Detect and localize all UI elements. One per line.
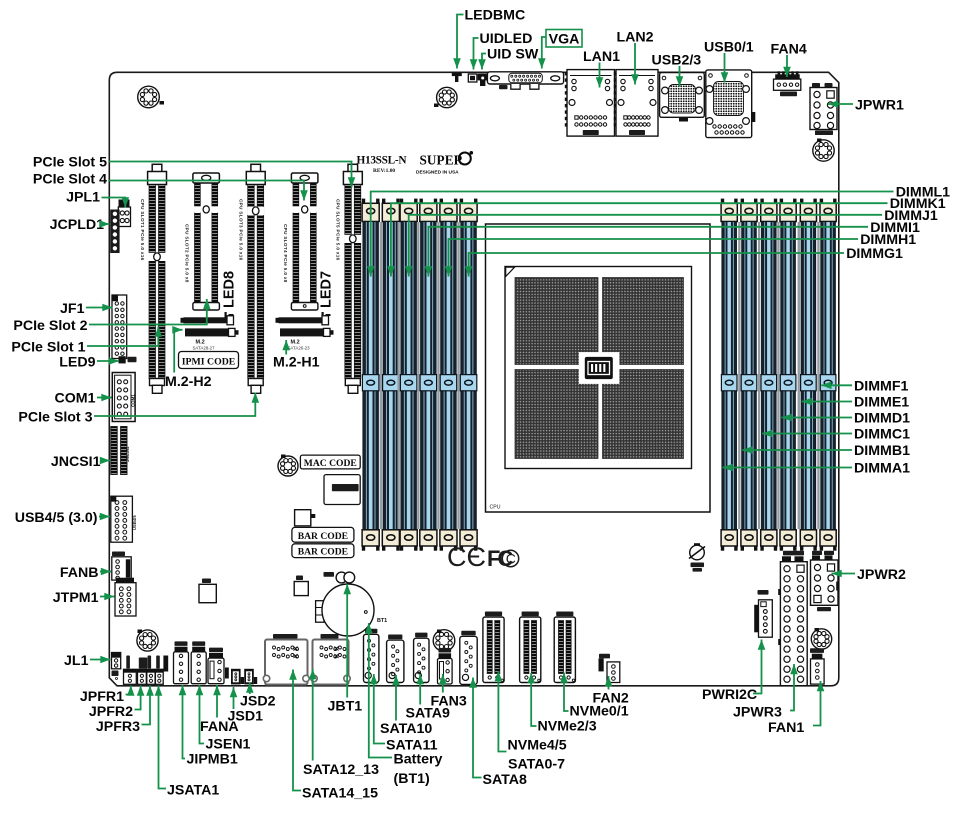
svg-text:M.2-H2: M.2-H2 bbox=[165, 374, 212, 390]
JL1 header bbox=[112, 653, 121, 680]
svg-text:SATA26-23: SATA26-23 bbox=[288, 346, 311, 351]
svg-text:UIDLED: UIDLED bbox=[480, 31, 533, 47]
svg-text:PCIe Slot 4: PCIe Slot 4 bbox=[33, 172, 107, 188]
LAN2 RJ45 jack bbox=[614, 70, 658, 137]
SATA11 connector bbox=[364, 629, 379, 683]
leader DIMMB1 bbox=[742, 446, 852, 454]
gap stripe bbox=[817, 222, 819, 529]
svg-text:Є: Є bbox=[467, 542, 486, 572]
JPL1 header bbox=[118, 200, 130, 227]
JNCSI1 header bbox=[111, 427, 130, 475]
FAN4 header bbox=[774, 71, 801, 96]
NVMe2/3 slimline connector bbox=[520, 612, 541, 683]
svg-text:JPWR3: JPWR3 bbox=[733, 705, 782, 721]
leader DIMMA1 bbox=[722, 464, 852, 472]
leader UID SW bbox=[478, 54, 486, 70]
leader USB2/3 bbox=[676, 66, 684, 87]
FAN3 header bbox=[438, 648, 453, 684]
svg-text:JPFR2: JPFR2 bbox=[89, 704, 133, 720]
PCIe slot CPU SLOT5 (x16) bbox=[336, 164, 363, 393]
svg-text:PWRI2C: PWRI2C bbox=[702, 687, 757, 703]
pad square near battery bbox=[294, 576, 308, 596]
svg-text:JSD2: JSD2 bbox=[240, 694, 276, 710]
JCPLD1 header bbox=[110, 210, 119, 254]
svg-text:COM1: COM1 bbox=[55, 391, 96, 407]
JPWR1 connector bbox=[810, 83, 837, 135]
leader DIMMD1 bbox=[781, 414, 852, 422]
svg-text:DIMMA1: DIMMA1 bbox=[854, 461, 910, 477]
leader PCIe Slot 3 bbox=[94, 393, 259, 417]
PCIe slot CPU SLOT2 (x8) bbox=[185, 173, 220, 310]
PCIe slot CPU SLOT1 (x16) bbox=[140, 164, 167, 393]
CE FC marks bbox=[447, 542, 519, 572]
svg-text:PCIe Slot 3: PCIe Slot 3 bbox=[18, 410, 92, 426]
FANA header bbox=[208, 648, 224, 684]
svg-text:USB4/5: USB4/5 bbox=[132, 515, 137, 530]
CPU socket outer box bbox=[486, 224, 711, 512]
leader JPWR2 bbox=[832, 570, 856, 578]
leader DIMME1 bbox=[802, 398, 852, 406]
svg-text:JF1: JF1 bbox=[60, 301, 85, 317]
svg-text:JNCSI1: JNCSI1 bbox=[51, 454, 101, 470]
svg-text:JIPMB1: JIPMB1 bbox=[187, 752, 238, 768]
svg-text:CPU SLOT2 PCIe 5.0 x8: CPU SLOT2 PCIe 5.0 x8 bbox=[185, 224, 190, 283]
NVMe4/5 slimline connector bbox=[483, 612, 504, 683]
svg-text:CPU SLOT5 PCIe 5.0 x16: CPU SLOT5 PCIe 5.0 x16 bbox=[336, 199, 341, 261]
JSD1 connector bbox=[231, 669, 244, 685]
JBT1 clear-CMOS pads bbox=[324, 572, 355, 583]
leader JBT1 bbox=[343, 584, 351, 698]
leader JSATA1 bbox=[155, 686, 166, 789]
svg-text:JL1: JL1 bbox=[64, 653, 89, 669]
leader SATA12_13 bbox=[309, 669, 317, 761]
DIMM slot DIMMC1 bbox=[760, 199, 777, 551]
leader LEDBMC bbox=[453, 15, 463, 69]
leader JCPLD1 bbox=[99, 220, 109, 228]
leader JIPMB1 bbox=[179, 685, 187, 759]
PCIe slot CPU SLOT4 (x8) bbox=[283, 173, 318, 310]
DIMM slot DIMMH1 bbox=[440, 199, 458, 551]
leader DIMMF1 bbox=[821, 382, 852, 390]
svg-text:SATA28-27: SATA28-27 bbox=[193, 346, 216, 351]
svg-text:JPWR1: JPWR1 bbox=[855, 98, 904, 114]
leader PCIe Slot 2 bbox=[89, 299, 211, 325]
leader JSD2 bbox=[246, 683, 254, 695]
svg-text:DIMMD1: DIMMD1 bbox=[854, 411, 910, 427]
leader JNCSI1 bbox=[100, 457, 110, 465]
leader PCIe Slot 4 bbox=[109, 181, 308, 201]
leader PCIe Slot 1 bbox=[87, 327, 162, 347]
leader DIMMK1 bbox=[387, 203, 887, 276]
svg-text:NVMe4/5: NVMe4/5 bbox=[508, 738, 567, 754]
SATA8 connector bbox=[460, 631, 477, 685]
leader JPL1 bbox=[102, 197, 130, 207]
leader FANB bbox=[100, 568, 111, 576]
leader SATA10 bbox=[392, 675, 400, 721]
leader UIDLED bbox=[470, 38, 479, 70]
CPU socket pin quadrant bottom-left bbox=[515, 370, 598, 459]
svg-text:JSEN1: JSEN1 bbox=[206, 737, 251, 753]
JPWR3 24-pin ATX connector bbox=[778, 551, 807, 686]
MHB pad square bbox=[199, 579, 216, 603]
mounting hole bottom-middle bbox=[433, 630, 455, 652]
DIMM slot DIMMG1 bbox=[460, 199, 478, 551]
svg-text:JBT1: JBT1 bbox=[328, 699, 363, 715]
gap stripe bbox=[798, 222, 800, 529]
svg-text:USB2/3: USB2/3 bbox=[652, 53, 702, 69]
leader SATA11 bbox=[370, 674, 385, 744]
gap stripe bbox=[417, 222, 419, 529]
svg-text:FAN4: FAN4 bbox=[771, 42, 807, 58]
VGA boxed label bbox=[546, 30, 582, 48]
leader FANA bbox=[213, 685, 221, 718]
svg-text:COM1: COM1 bbox=[130, 394, 135, 407]
svg-text:JNCSI1: JNCSI1 bbox=[125, 446, 130, 462]
svg-text:NVMe2/3: NVMe2/3 bbox=[538, 719, 597, 735]
leader SATA8 bbox=[469, 678, 481, 778]
mounting hole top-left bbox=[138, 86, 164, 108]
svg-text:C: C bbox=[447, 542, 467, 572]
leader JSEN1 bbox=[196, 685, 204, 744]
svg-text:SATA10: SATA10 bbox=[380, 721, 432, 737]
JPFR headers group bbox=[124, 656, 169, 685]
H13SSL-N title bbox=[357, 155, 408, 175]
svg-text:DIMMC1: DIMMC1 bbox=[854, 427, 910, 443]
svg-text:LED7: LED7 bbox=[319, 271, 335, 308]
USB2/3 stacked connector bbox=[660, 73, 705, 122]
svg-text:DIMMB1: DIMMB1 bbox=[854, 443, 910, 459]
leader VGA bbox=[538, 37, 546, 69]
leader M.2-H1 bbox=[282, 340, 290, 355]
svg-text:CPU: CPU bbox=[490, 505, 501, 511]
leader SATA14_15 bbox=[289, 670, 301, 791]
mounting hole bottom-left bbox=[137, 630, 158, 652]
battery BT1 bbox=[316, 584, 388, 636]
DIMM slot DIMMB1 bbox=[741, 199, 758, 551]
svg-text:IPMI CODE: IPMI CODE bbox=[182, 356, 236, 367]
svg-text:SUPER: SUPER bbox=[420, 153, 464, 168]
label box below MAC CODE bbox=[324, 475, 360, 505]
DIMM slot DIMMI1 bbox=[420, 199, 438, 551]
leader LAN2 bbox=[631, 43, 639, 85]
svg-text:USB0/1: USB0/1 bbox=[704, 40, 754, 56]
svg-text:JTPM1: JTPM1 bbox=[53, 590, 99, 606]
CPU socket center chip bbox=[579, 352, 620, 384]
gap stripe bbox=[380, 222, 382, 529]
mounting hole center bbox=[278, 455, 298, 477]
leader LED9 bbox=[97, 357, 119, 365]
gap stripe bbox=[758, 222, 760, 529]
gap stripe bbox=[738, 222, 740, 529]
svg-text:FANB: FANB bbox=[60, 565, 99, 581]
SATA9 connector bbox=[414, 633, 429, 683]
svg-text:BAR CODE: BAR CODE bbox=[298, 547, 348, 558]
svg-text:MAC CODE: MAC CODE bbox=[304, 458, 357, 469]
JF1 front panel header bbox=[112, 295, 127, 359]
gap stripe bbox=[437, 222, 439, 529]
DIMM slot DIMML1 bbox=[362, 199, 380, 551]
svg-text:M.2-H1: M.2-H1 bbox=[273, 355, 320, 371]
svg-text:Battery: Battery bbox=[394, 752, 443, 768]
leader FAN2 bbox=[605, 676, 613, 690]
leader FAN4 bbox=[783, 55, 791, 77]
leader COM1 bbox=[97, 394, 112, 402]
FANB header bbox=[112, 552, 131, 581]
LAN1 RJ45 jack bbox=[565, 70, 615, 137]
svg-text:FAN2: FAN2 bbox=[593, 691, 629, 707]
USB4/5 header bbox=[111, 496, 137, 542]
svg-text:DIMMF1: DIMMF1 bbox=[854, 378, 908, 394]
USB0/1 stacked connector bbox=[706, 70, 756, 138]
JSD2 connector bbox=[244, 669, 257, 685]
svg-text:C: C bbox=[506, 551, 516, 567]
DIMM slot DIMMA1 bbox=[721, 199, 738, 551]
leader FAN3 bbox=[439, 674, 447, 693]
leader JL1 bbox=[90, 656, 111, 664]
leader DIMMC1 bbox=[762, 430, 852, 438]
leader DIMML1 bbox=[367, 192, 894, 277]
svg-text:SATA14_15: SATA14_15 bbox=[302, 786, 378, 802]
svg-text:JCPLD1: JCPLD1 bbox=[50, 217, 105, 233]
leader PWRI2C bbox=[753, 640, 765, 694]
leader NVMe2/3 bbox=[527, 673, 536, 726]
leader FAN1 bbox=[813, 681, 824, 726]
svg-text:JSATA1: JSATA1 bbox=[167, 783, 219, 799]
leader PCIe Slot 5 bbox=[109, 162, 355, 188]
leader JPFR2 bbox=[135, 686, 145, 710]
JIPMB1 header bbox=[174, 641, 189, 683]
gap stripe bbox=[777, 222, 779, 529]
svg-text:LED9: LED9 bbox=[59, 355, 95, 371]
leader Battery bbox=[365, 623, 392, 758]
leader JF1 bbox=[86, 304, 113, 312]
svg-text:CPU SLOT3 PCIe 5.0 x16: CPU SLOT3 PCIe 5.0 x16 bbox=[239, 199, 244, 261]
svg-text:BT1: BT1 bbox=[377, 618, 387, 624]
FANA side bar bbox=[225, 668, 229, 679]
svg-text:UID SW: UID SW bbox=[487, 47, 539, 63]
M.2 connector M.2-H2 bbox=[181, 316, 239, 351]
UIDLED component bbox=[468, 74, 477, 82]
leader JTPM1 bbox=[100, 593, 115, 601]
svg-text:JPWR2: JPWR2 bbox=[857, 567, 906, 583]
leader JPFR3 bbox=[142, 686, 154, 725]
DIMM slot DIMMK1 bbox=[382, 199, 400, 551]
svg-text:CPU SLOT1 PCIe 5.0 x16: CPU SLOT1 PCIe 5.0 x16 bbox=[140, 199, 145, 261]
CPU socket pin quadrant top-left bbox=[515, 278, 598, 365]
SATA14_15 connector (SATA3A) bbox=[263, 634, 309, 685]
svg-text:DESIGNED IN USA: DESIGNED IN USA bbox=[416, 170, 459, 176]
UID SW component bbox=[478, 74, 488, 87]
leader M.2-H2 bbox=[172, 326, 182, 373]
mounting hole top-middle bbox=[434, 87, 457, 107]
SATA10 connector bbox=[387, 635, 404, 683]
svg-text:SATA8: SATA8 bbox=[483, 772, 528, 788]
svg-text:LAN1: LAN1 bbox=[583, 49, 620, 65]
PWRI2C connector bbox=[754, 590, 772, 637]
svg-text:PCIe Slot 2: PCIe Slot 2 bbox=[13, 318, 87, 334]
svg-text:SATA12_13: SATA12_13 bbox=[303, 762, 379, 778]
leader DIMMG1 bbox=[465, 253, 844, 277]
NVMe0/1 slimline connector bbox=[554, 612, 575, 683]
CPU socket pin quadrant top-right bbox=[603, 278, 684, 365]
leader JPWR1 bbox=[828, 100, 853, 108]
FAN2 header bbox=[599, 654, 620, 683]
svg-text:USB4/5 (3.0): USB4/5 (3.0) bbox=[15, 510, 98, 526]
BAR CODE box 1 bbox=[292, 527, 354, 542]
svg-text:JPFR3: JPFR3 bbox=[96, 719, 140, 735]
svg-text:JPL1: JPL1 bbox=[66, 190, 100, 206]
svg-text:FAN3: FAN3 bbox=[431, 694, 467, 710]
JPWR2 connector bbox=[811, 551, 840, 611]
leader DIMMJ1 bbox=[405, 215, 882, 277]
LED9 component bbox=[119, 356, 137, 363]
pad square with tab bbox=[295, 510, 316, 526]
LED8 rotated text bbox=[222, 271, 238, 319]
svg-text:REV:1.00: REV:1.00 bbox=[373, 168, 395, 174]
CPU socket inner frame bbox=[505, 267, 692, 469]
mounting hole top-right bbox=[813, 139, 834, 162]
MAC CODE box bbox=[300, 455, 360, 469]
DIMM slot DIMMF1 bbox=[820, 199, 837, 551]
IPMI CODE box bbox=[179, 352, 239, 369]
board outline bbox=[109, 72, 839, 686]
svg-text:PCIe Slot 5: PCIe Slot 5 bbox=[33, 155, 107, 171]
leader JPWR3 bbox=[790, 664, 798, 711]
svg-text:PCIe Slot 1: PCIe Slot 1 bbox=[11, 340, 85, 356]
VGA connector bbox=[487, 72, 563, 89]
LEDBMC component bbox=[452, 73, 462, 83]
screw hole below right DIMM bank bbox=[689, 543, 705, 571]
svg-text:CPU SLOT4 PCIe 5.0 x8: CPU SLOT4 PCIe 5.0 x8 bbox=[283, 224, 288, 283]
JTPM1 header bbox=[115, 578, 136, 616]
CPU socket pin quadrant bottom-right bbox=[603, 370, 684, 459]
svg-text:LED8: LED8 bbox=[222, 271, 238, 308]
PCIe slot CPU SLOT3 (x16) bbox=[239, 164, 266, 393]
leader NVMe0/1 bbox=[560, 673, 568, 712]
SATA12_13 connector (SATA3B) bbox=[311, 634, 350, 685]
leader SATA9 bbox=[416, 674, 424, 705]
mounting hole bottom-right bbox=[811, 628, 831, 649]
svg-text:DIMMG1: DIMMG1 bbox=[846, 246, 903, 262]
gap stripe bbox=[457, 222, 459, 529]
DIMM slot DIMMJ1 bbox=[400, 199, 418, 551]
Supermicro logo bbox=[416, 151, 473, 176]
leader LAN1 bbox=[596, 63, 604, 88]
svg-text:FAN1: FAN1 bbox=[768, 720, 804, 736]
svg-text:H13SSL-N: H13SSL-N bbox=[357, 155, 408, 167]
DIMM slot DIMME1 bbox=[800, 199, 817, 551]
BAR CODE box 2 bbox=[292, 544, 354, 558]
leader JSD1 bbox=[230, 687, 238, 709]
COM1 header bbox=[112, 373, 135, 422]
leader USB0/1 bbox=[721, 53, 729, 83]
leader DIMMI1 bbox=[425, 227, 868, 277]
svg-text:JSD1: JSD1 bbox=[228, 709, 264, 725]
FAN1 header bbox=[810, 648, 824, 684]
svg-text:BAR CODE: BAR CODE bbox=[298, 531, 348, 542]
LED7 rotated text bbox=[319, 271, 335, 319]
DIMM slot DIMMD1 bbox=[780, 199, 797, 551]
svg-text:DIMME1: DIMME1 bbox=[854, 395, 909, 411]
svg-text:SATA0-7: SATA0-7 bbox=[508, 757, 565, 773]
leader JPFR1 bbox=[126, 686, 135, 696]
svg-text:LEDBMC: LEDBMC bbox=[465, 8, 526, 24]
leader USB4/5 (3.0) bbox=[99, 513, 110, 521]
M.2 connector M.2-H1 bbox=[276, 316, 334, 351]
svg-text:JPFR1: JPFR1 bbox=[80, 689, 124, 705]
svg-text:VGA: VGA bbox=[549, 32, 580, 48]
leader NVMe4/5 SATA0-7 bbox=[495, 671, 507, 752]
JSEN1 header bbox=[191, 641, 206, 683]
gap stripe bbox=[397, 222, 399, 529]
svg-text:(BT1): (BT1) bbox=[394, 771, 431, 787]
leader DIMMH1 bbox=[445, 239, 858, 277]
